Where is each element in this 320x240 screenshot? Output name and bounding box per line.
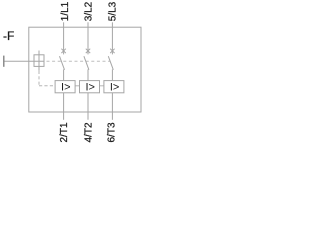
svg-text:I>: I>	[61, 82, 70, 94]
svg-text:5/L3: 5/L3	[108, 1, 119, 21]
svg-text:-F: -F	[3, 29, 14, 43]
svg-text:4/T2: 4/T2	[83, 122, 94, 142]
svg-text:2/T1: 2/T1	[59, 122, 70, 142]
svg-text:I>: I>	[85, 82, 94, 94]
svg-text:6/T3: 6/T3	[107, 122, 118, 142]
svg-text:1/L1: 1/L1	[60, 1, 71, 21]
svg-text:3/L2: 3/L2	[83, 1, 94, 21]
svg-text:I>: I>	[110, 82, 119, 94]
